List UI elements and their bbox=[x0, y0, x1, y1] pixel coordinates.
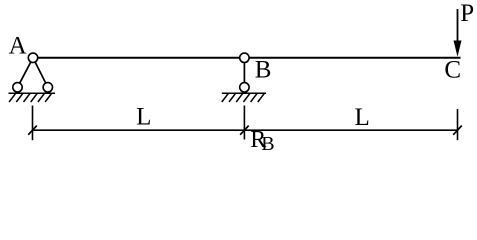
svg-text:B: B bbox=[261, 133, 274, 154]
ground line at A bbox=[9, 92, 56, 94]
svg-text:P: P bbox=[460, 0, 474, 27]
dimension tick at B bbox=[240, 126, 249, 135]
hinge circle at A bbox=[28, 53, 37, 62]
roller circle A right bbox=[43, 83, 52, 92]
dimension tick at C bbox=[453, 126, 462, 135]
hinge circle at B bottom bbox=[240, 83, 249, 92]
link support at B: vertical link bbox=[243, 58, 245, 88]
pin support at A: left leg bbox=[18, 58, 34, 88]
dimension tick at A bbox=[28, 126, 37, 135]
svg-text:C: C bbox=[444, 57, 461, 84]
pin support at A: right leg bbox=[33, 58, 48, 88]
roller circle A left bbox=[13, 83, 22, 92]
ground line at B bbox=[222, 92, 266, 94]
ground hatching at B bbox=[222, 93, 264, 102]
hinge circle at B top bbox=[240, 53, 249, 62]
extension line at B bbox=[243, 106, 245, 140]
extension line at C bbox=[457, 109, 459, 140]
force P arrowhead bbox=[454, 41, 462, 57]
svg-text:A: A bbox=[9, 33, 27, 60]
force P line bbox=[457, 9, 459, 44]
svg-text:L: L bbox=[136, 104, 151, 131]
svg-text:B: B bbox=[255, 57, 272, 84]
ground hatching at A bbox=[9, 93, 52, 102]
beam / wire A to C bbox=[33, 57, 461, 59]
dimension line bbox=[33, 129, 458, 131]
svg-text:L: L bbox=[355, 104, 370, 131]
extension line at A bbox=[32, 106, 34, 141]
